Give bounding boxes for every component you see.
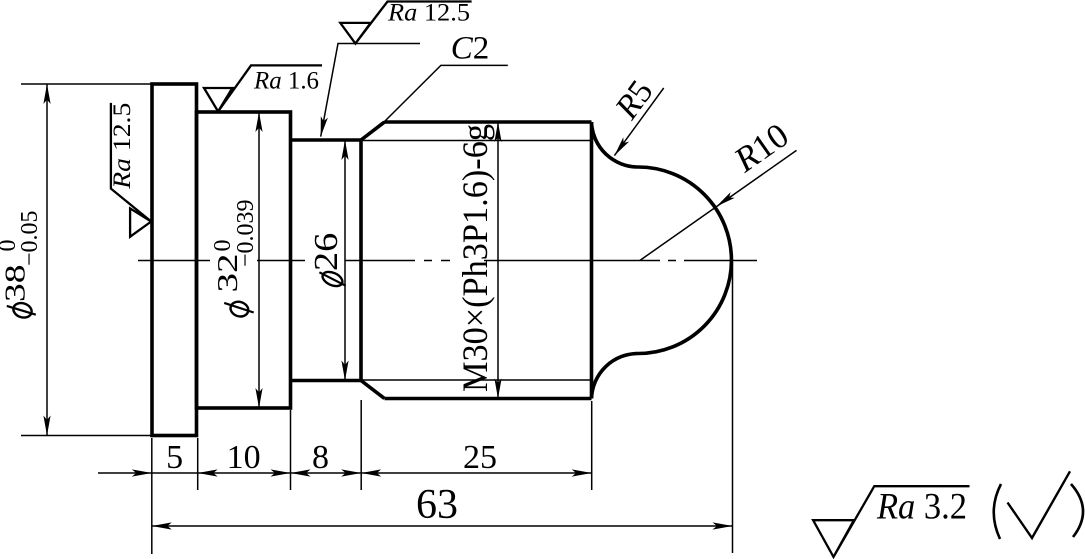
dimension line 63 [152,525,733,527]
chamfer C2 bottom edge [361,381,385,399]
flange phi38 section outline [152,84,197,436]
svg-text:Ra 12.5: Ra 12.5 [109,103,136,190]
Ra12.5 top leader line [321,44,420,137]
svg-text:−0.05: −0.05 [17,210,43,266]
arrow phi26 bottom [341,361,348,381]
phi symbol of phi32 [229,300,250,319]
svg-text:5: 5 [166,439,183,476]
svg-text:Ra 1.6: Ra 1.6 [253,68,319,95]
thread minor diameter thin line top [362,140,592,142]
phi32 dimension line [258,112,260,408]
thread minor diameter thin line bottom [362,379,592,381]
arrow phi26 top [341,140,348,160]
phi26 groove section bottom edge [291,379,362,383]
extension line at x=197.7 [197,438,199,490]
chamfer C2 top edge [361,122,385,140]
svg-text:63: 63 [416,482,458,528]
radius text R10 [726,115,795,180]
arrow dim10 right [271,469,291,476]
arrow phi32 bottom [255,388,262,408]
shaft right end face [590,122,594,399]
arrow dim63 right [713,522,733,529]
svg-text:Ra 3.2: Ra 3.2 [876,487,967,528]
arrow M30 bottom [494,379,501,399]
svg-text:38: 38 [0,265,31,303]
roughness symbol Ra1.6 (on phi32) [204,65,322,111]
M30 dimension line [497,122,499,399]
arrow dim8 right [341,469,361,476]
phi26 dimension line [344,140,346,381]
center line (dash-dot axis) [138,260,757,262]
thread major diameter bottom edge [385,397,592,401]
thread end face line [359,140,363,381]
phi symbol of phi38 [12,301,34,320]
R10 leader arrow [716,192,734,206]
R10 leader line [640,150,797,260]
svg-text:R10: R10 [726,115,795,180]
svg-text:Ra 12.5: Ra 12.5 [387,0,470,27]
nose profile R5/R10 curves [592,122,732,399]
arrow phi38 bottom [43,416,50,436]
parenthesis left [994,484,1001,539]
dimension line row (5,10,8,25) [98,472,592,474]
phi32 section outline [197,112,291,408]
arrow dim10 left [198,469,218,476]
svg-text:−0.039: −0.039 [233,199,259,267]
extension line at x=361 [360,400,362,490]
parenthesis right [1071,484,1083,537]
Ra12.5 top leader arrow [321,116,328,136]
phi26 groove section top edge [291,138,362,142]
arrow dim8 left [291,469,311,476]
arrow dim25 right [572,469,592,476]
arrow M30 top [494,122,501,142]
phi38 dimension line [46,84,48,436]
svg-text:26: 26 [308,233,345,271]
arrow phi32 top [255,112,262,132]
C2 leader line [383,65,508,123]
extension line at x=732.5 (nose tip) [732,262,734,553]
phi38 bottom extension line [21,435,152,437]
svg-text:R5: R5 [608,74,661,127]
basic check symbol [1008,471,1071,538]
svg-text:10: 10 [227,439,261,476]
svg-text:8: 8 [312,439,329,476]
svg-text:C2: C2 [451,31,490,67]
arrow dim5 left [132,469,152,476]
arrow dim63 left [152,522,172,529]
roughness symbol Ra12.5 (left, on flange face, rotated) [109,103,151,237]
phi symbol of phi26 [320,269,344,289]
thread major diameter top edge [385,120,592,124]
radius text R5 [608,74,661,127]
arrow phi38 top [43,84,50,104]
extension line at x=290.5 [290,410,292,490]
extension line at x=591.5 [591,401,593,490]
R5 leader line [614,88,663,156]
phi38 top extension line [21,83,152,85]
M30 thread designation text [455,124,495,392]
roughness symbol Ra12.5 (top, on thread leader) [340,2,471,44]
extension line at x=152 (left end) [151,438,153,554]
svg-text:25: 25 [463,439,497,476]
R5 leader arrow [614,137,629,155]
arrow dim25 left [361,469,381,476]
svg-text:M30×(Ph3P1.6)-6g: M30×(Ph3P1.6)-6g [455,124,495,392]
roughness symbol Ra3.2 (general note, bottom right) [813,486,969,557]
